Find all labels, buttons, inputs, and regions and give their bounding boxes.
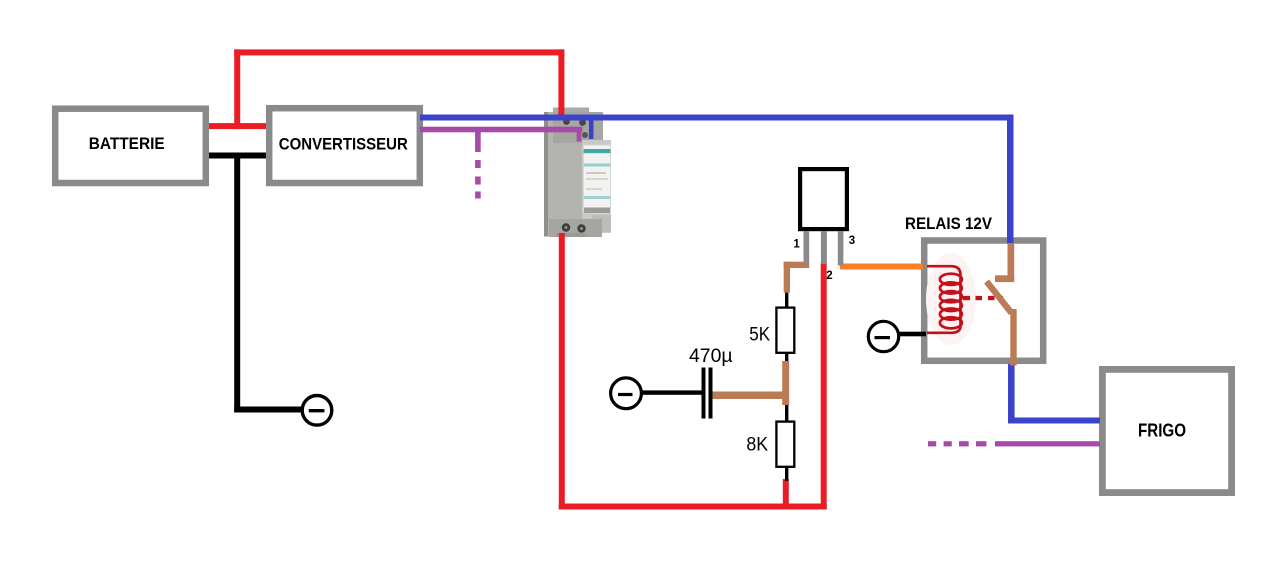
wire purple dash 2 <box>475 177 481 185</box>
wire black vertical from batterie <box>234 153 240 413</box>
wire purple dash 1 <box>475 160 481 168</box>
wire red left vertical drop <box>234 49 240 129</box>
svg-text:2: 2 <box>826 270 832 282</box>
wire red module bottom vertical <box>559 233 565 510</box>
wire purple dashed to frigo <box>928 441 1100 446</box>
wire black ground to capacitor <box>641 390 702 394</box>
module K1 (DIN-rail relay photo) <box>544 108 611 238</box>
wire blue main horizontal <box>420 115 1014 121</box>
resistor 5K <box>749 308 794 353</box>
resistor 8K <box>746 422 794 467</box>
relay switch blade (tan) <box>987 282 1017 366</box>
svg-text:CONVERTISSEUR: CONVERTISSEUR <box>279 135 408 154</box>
wire black stub 5K bottom <box>785 352 788 365</box>
wire black batterie-convertisseur <box>203 153 267 159</box>
relay coil L1 <box>926 253 976 345</box>
block CONVERTISSEUR <box>269 108 420 183</box>
wire red right vertical into module <box>558 49 564 116</box>
capacitor C1 470u <box>689 346 733 419</box>
wire red emitter vertical from pin 2 <box>821 263 827 510</box>
relay box RELAIS 12V <box>905 214 1043 361</box>
wire blue vertical to relay <box>1007 115 1014 244</box>
wire black stub 5K top <box>785 286 788 308</box>
wire black stub 8K bottom <box>785 466 788 481</box>
block FRIGO <box>1102 369 1231 492</box>
svg-text:8K: 8K <box>746 434 768 455</box>
ground G3 (relay coil) <box>868 321 898 351</box>
block BATTERIE <box>55 109 206 183</box>
wire black horizontal to ground <box>234 407 302 413</box>
svg-text:FRIGO: FRIGO <box>1138 421 1186 441</box>
wire black ground to relay coil <box>898 332 926 337</box>
wire blue drop into module <box>589 117 594 139</box>
wire tan from pin 1 <box>784 262 810 293</box>
wire purple dash 3 <box>475 192 481 199</box>
wire purple drop into module <box>577 129 582 142</box>
wire tan junction between resistors <box>782 361 789 405</box>
relay fixed contact (tan) <box>995 243 1014 282</box>
svg-text:RELAIS 12V: RELAIS 12V <box>905 214 993 233</box>
transistor Q1 <box>800 169 847 265</box>
svg-text:1: 1 <box>793 238 800 250</box>
wire red batterie-convertisseur <box>205 123 267 129</box>
wire tan capacitor to divider <box>713 392 784 400</box>
wire red bottom horizontal <box>559 504 827 510</box>
ground G1 (battery minus) <box>302 396 332 426</box>
svg-text:BATTERIE: BATTERIE <box>89 134 165 153</box>
wire black stub 8K top <box>785 402 788 422</box>
ground G2 (capacitor) <box>611 378 642 409</box>
svg-text:470µ: 470µ <box>689 346 733 367</box>
wire red top horizontal <box>234 49 564 55</box>
wire blue below relay <box>1008 364 1015 424</box>
wire red stub below 8K <box>783 479 789 510</box>
wire purple tee vertical <box>475 132 481 152</box>
wire orange pin3 to relay <box>840 264 923 270</box>
svg-text:3: 3 <box>849 235 855 247</box>
wire blue to frigo <box>1008 418 1100 424</box>
wire purple main horizontal <box>420 127 582 133</box>
relay actuation dashed link <box>963 296 1003 300</box>
svg-text:5K: 5K <box>749 324 770 345</box>
